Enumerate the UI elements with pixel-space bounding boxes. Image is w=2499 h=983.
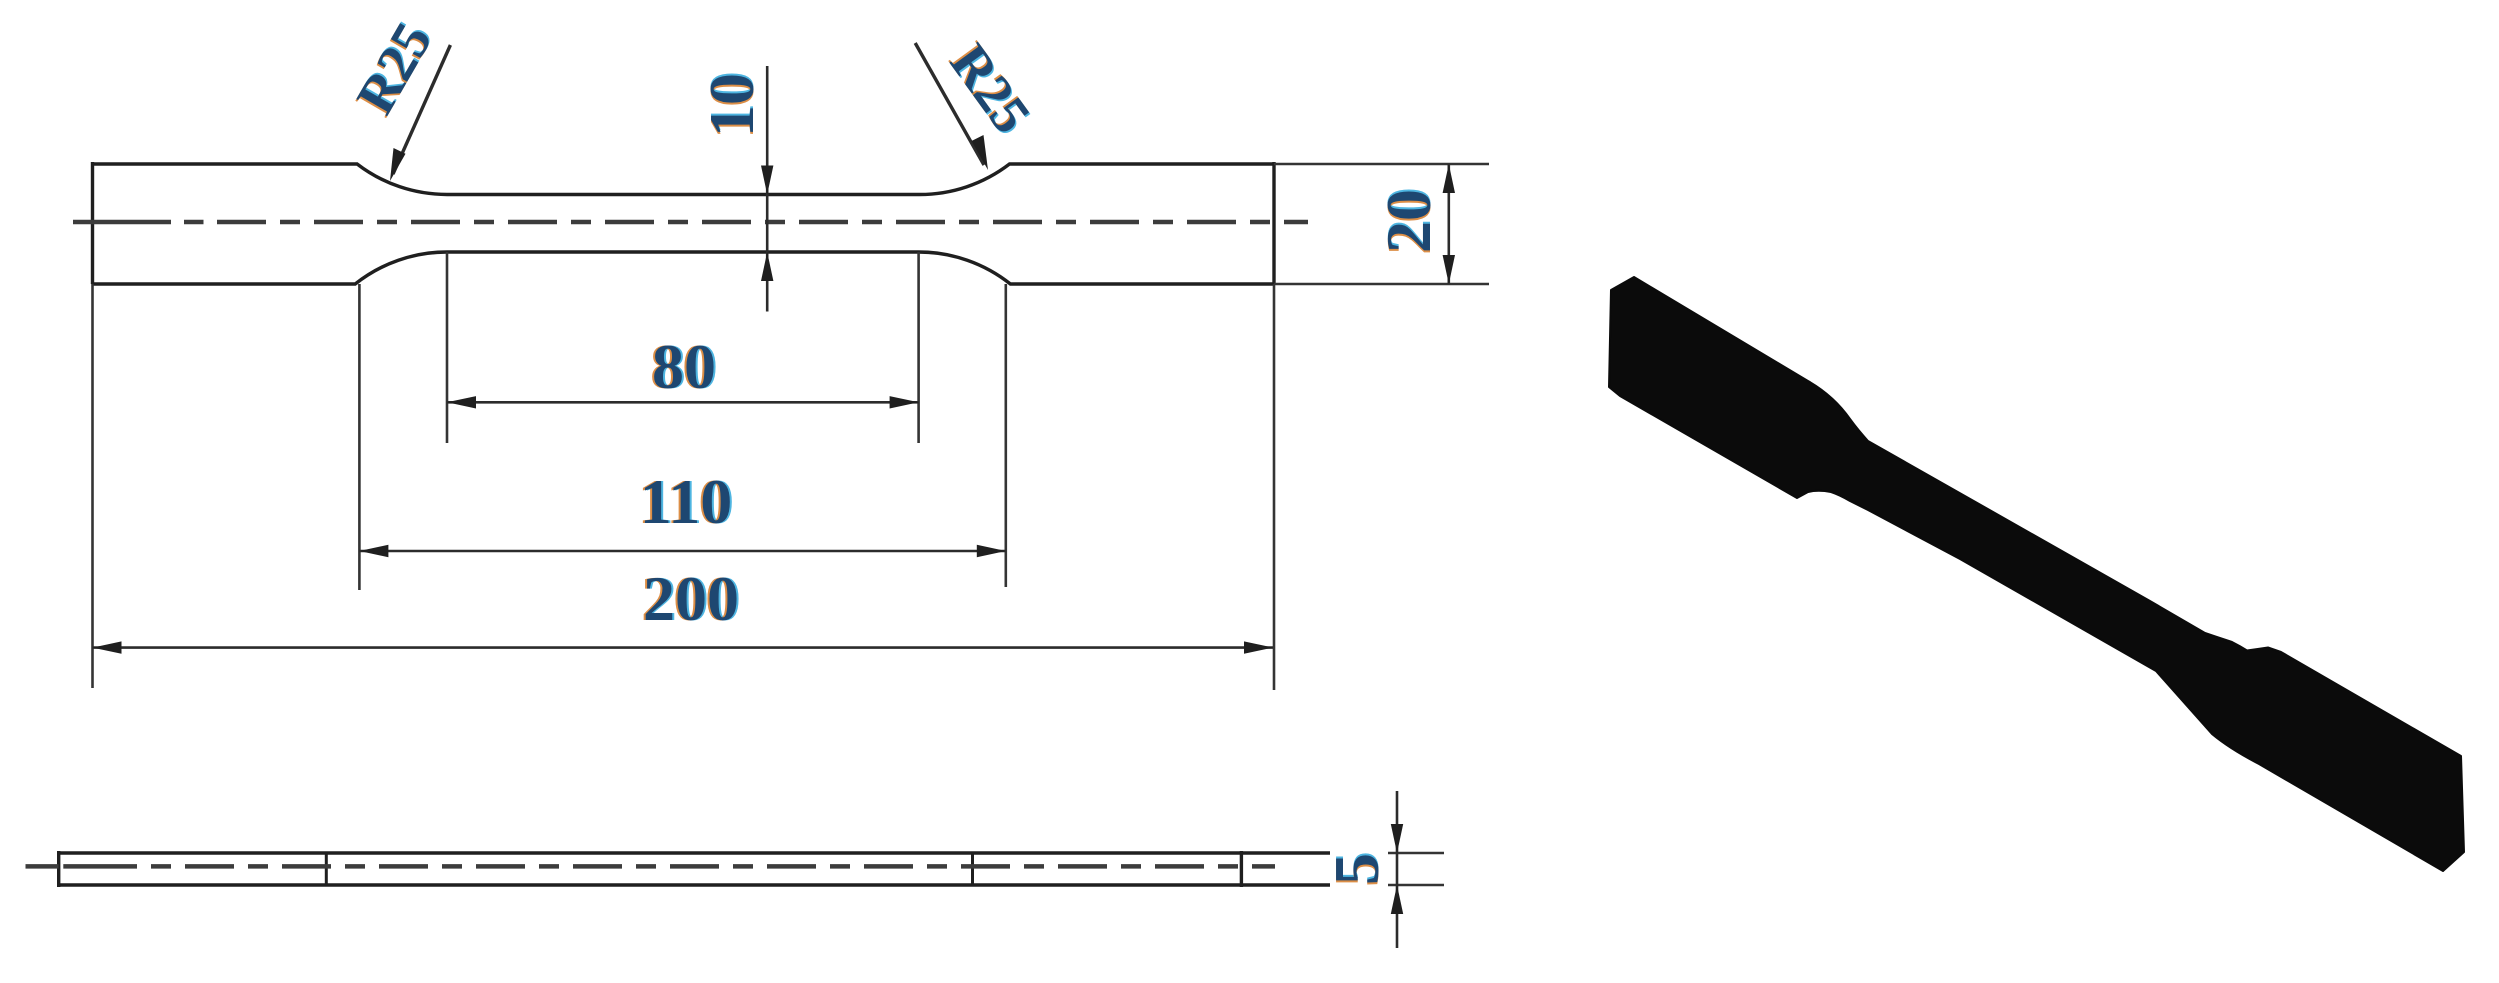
dimension line 20 (vertical, right) (1448, 164, 1451, 284)
dimension line 200 (93, 646, 1274, 649)
svg-text:10: 10 (696, 73, 767, 137)
side view left edge (57, 851, 60, 887)
leader R25 right (915, 43, 984, 165)
extension line: 110 dim left (358, 284, 361, 590)
dimension line 10 (vertical, middle) (766, 66, 769, 312)
specimen right edge (1272, 162, 1275, 284)
dimension line 5 (vertical) (1396, 791, 1399, 948)
dimension line 110 (359, 550, 1005, 553)
side view division line right (971, 853, 974, 885)
extension line: 20 dim top (1274, 163, 1489, 166)
extension line: 80 dim right (917, 252, 920, 443)
side view division line left (325, 853, 328, 885)
svg-text:5: 5 (1321, 853, 1392, 885)
extension line: 200 dim left (left edge extended) (91, 284, 94, 688)
extension line: 110 dim right (1004, 284, 1007, 587)
extension line: 80 dim left (446, 252, 449, 443)
centerline (top view) (73, 220, 171, 225)
extension line: 200 dim right (right edge extended) (1273, 284, 1276, 690)
side view top edge (with 5-dim extension) (59, 851, 1332, 854)
leader R25 left (393, 45, 450, 174)
side view right edge (1240, 851, 1243, 887)
white gap for 5 text (1330, 843, 1388, 895)
svg-text:20: 20 (1373, 189, 1444, 253)
side view centerline (26, 864, 59, 869)
black specimen photo silhouette (1609, 277, 2464, 871)
specimen outline top edge with R25 fillets (93, 164, 1275, 195)
dimension line 80 (447, 401, 919, 404)
svg-text:110: 110 (640, 466, 732, 537)
side view bottom edge (with 5-dim extension) (59, 883, 1332, 886)
svg-text:80: 80 (652, 331, 716, 402)
specimen left edge (91, 162, 94, 284)
specimen outline bottom edge with R25 fillets (93, 252, 1275, 284)
svg-text:200: 200 (643, 563, 739, 634)
extension line: 20 dim bottom (1274, 283, 1489, 286)
